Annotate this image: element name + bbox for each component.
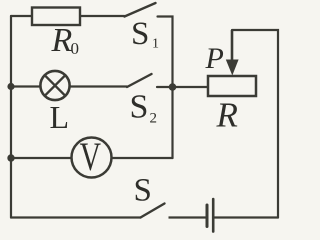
node junction dot (left rail / lamp row) bbox=[7, 83, 14, 90]
wire bottom row bbox=[11, 216, 141, 218]
switch S1 blade bbox=[125, 3, 156, 17]
switch S2 blade bbox=[127, 74, 152, 87]
svg-text:0: 0 bbox=[71, 39, 80, 58]
wire S2 contact to rheostat bbox=[157, 86, 207, 88]
wire left rail bbox=[10, 16, 12, 218]
rheostat R body bbox=[208, 76, 256, 96]
wire S contact bbox=[169, 216, 208, 218]
wire middle rail (S1/S2 common down to voltmeter) bbox=[158, 17, 173, 159]
lamp L bbox=[40, 71, 69, 100]
resistor R0 bbox=[32, 8, 80, 26]
rheostat wiper P arrow bbox=[226, 30, 239, 76]
svg-text:L: L bbox=[50, 99, 70, 135]
battery cell negative plate (short) bbox=[206, 205, 209, 227]
svg-text:1: 1 bbox=[152, 37, 159, 52]
svg-text:2: 2 bbox=[150, 111, 158, 127]
wire wiper top to right rail bbox=[232, 30, 278, 218]
voltmeter V bbox=[72, 135, 112, 179]
svg-text:R: R bbox=[216, 96, 238, 135]
wire battery to right rail bbox=[213, 216, 278, 218]
svg-text:R: R bbox=[51, 22, 73, 59]
wire voltmeter row bbox=[11, 157, 173, 159]
wire lamp row bbox=[11, 85, 127, 87]
svg-text:S: S bbox=[131, 16, 149, 52]
battery cell positive plate (long) bbox=[212, 199, 215, 232]
node junction dot (left rail / voltmeter row) bbox=[7, 154, 14, 161]
node junction dot (middle rail / S2 contact) bbox=[169, 83, 177, 91]
svg-text:V: V bbox=[80, 135, 101, 179]
svg-text:P: P bbox=[205, 42, 224, 75]
svg-text:S: S bbox=[130, 89, 149, 126]
switch S blade bbox=[141, 204, 165, 218]
svg-text:S: S bbox=[134, 173, 152, 209]
wire top (node between battery+ and R0 / S1) bbox=[11, 15, 125, 17]
